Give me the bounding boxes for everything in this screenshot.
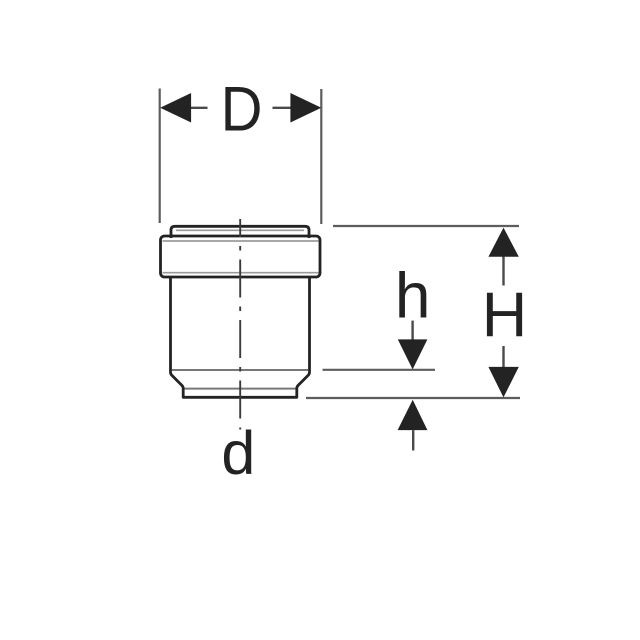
H top arrowhead (pointing up) xyxy=(488,228,518,257)
insertion-depth line inside body xyxy=(172,369,308,371)
bottom extension line for H and d xyxy=(306,397,520,399)
H dimension line upper segment xyxy=(502,256,504,286)
bottom reference arrow tail xyxy=(412,430,414,450)
thin inner line of bottom rim xyxy=(185,388,296,390)
H dimension line lower segment xyxy=(502,346,504,368)
h extension line xyxy=(323,369,436,371)
top lip of fitting xyxy=(171,226,309,238)
centerline (dash-dot axis) xyxy=(239,219,241,430)
D dimension line right stub xyxy=(273,107,292,109)
thin inner line of lip xyxy=(176,229,304,231)
thin inner line below collar top xyxy=(163,240,319,242)
svg-text:H: H xyxy=(482,280,528,350)
h dimension line stub xyxy=(411,321,413,340)
H bottom arrowhead (pointing down) xyxy=(488,367,518,398)
svg-text:d: d xyxy=(221,419,255,487)
left extension line for D xyxy=(159,89,161,224)
svg-text:D: D xyxy=(221,73,263,144)
D right arrowhead xyxy=(290,93,321,123)
bottom reference arrowhead (pointing up at bottom line) xyxy=(398,400,428,430)
collar (socket sleeve) of fitting xyxy=(161,236,321,277)
D left arrowhead xyxy=(160,93,191,123)
body and spigot bottom of fitting xyxy=(171,276,310,397)
D dimension line left stub xyxy=(190,107,208,109)
right extension line for D xyxy=(320,89,322,224)
top extension line for H xyxy=(333,225,519,227)
thin inner line above collar bottom xyxy=(163,272,319,274)
h arrowhead (pointing down) xyxy=(398,339,428,369)
svg-text:h: h xyxy=(395,260,431,332)
